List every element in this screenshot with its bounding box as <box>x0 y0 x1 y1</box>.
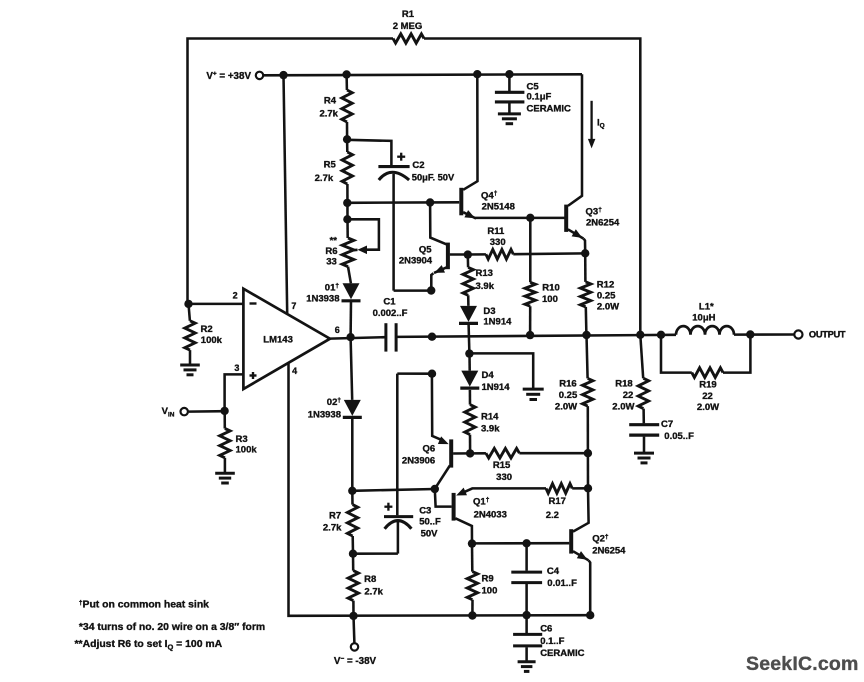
svg-text:Q6: Q6 <box>423 444 436 455</box>
svg-text:R14: R14 <box>481 412 499 423</box>
svg-text:*34 turns of no. 20 wire on a: *34 turns of no. 20 wire on a 3/8′′ form <box>79 622 265 633</box>
svg-text:100: 100 <box>542 294 558 305</box>
svg-text:0.01..F: 0.01..F <box>547 578 577 589</box>
svg-text:2.7k: 2.7k <box>319 108 338 119</box>
svg-text:0.002..F: 0.002..F <box>373 308 408 319</box>
svg-text:2: 2 <box>233 291 238 301</box>
svg-text:C6: C6 <box>540 624 552 635</box>
svg-text:2N6254: 2N6254 <box>586 218 620 229</box>
svg-text:Q5: Q5 <box>419 244 432 255</box>
svg-text:2N4033: 2N4033 <box>474 510 507 521</box>
svg-text:0.1μF: 0.1μF <box>527 92 552 103</box>
svg-text:R7: R7 <box>329 511 341 522</box>
svg-text:1N914: 1N914 <box>483 317 512 328</box>
svg-text:50μF. 50V: 50μF. 50V <box>412 173 455 183</box>
svg-text:R19: R19 <box>699 380 716 391</box>
svg-text:33: 33 <box>326 257 337 268</box>
svg-text:CERAMIC: CERAMIC <box>540 648 584 659</box>
svg-text:**: ** <box>330 236 338 247</box>
svg-text:D3: D3 <box>483 306 495 317</box>
svg-text:3.9k: 3.9k <box>481 424 500 435</box>
svg-text:0.25: 0.25 <box>559 390 578 401</box>
svg-text:C1: C1 <box>383 296 396 307</box>
svg-text:2.0W: 2.0W <box>597 302 619 313</box>
svg-text:OUTPUT: OUTPUT <box>809 329 846 339</box>
svg-text:R1: R1 <box>402 9 415 20</box>
svg-text:02†: 02† <box>327 397 342 408</box>
svg-text:LM143: LM143 <box>263 334 293 345</box>
svg-text:1N3938: 1N3938 <box>308 410 341 421</box>
svg-text:R12: R12 <box>597 280 614 291</box>
svg-text:50V: 50V <box>421 528 439 539</box>
svg-text:100: 100 <box>482 586 498 597</box>
svg-text:01†: 01† <box>325 282 340 293</box>
svg-text:VIN: VIN <box>162 406 175 418</box>
svg-text:C7: C7 <box>661 419 673 430</box>
svg-text:Q3†: Q3† <box>586 206 603 217</box>
svg-text:Q4†: Q4† <box>481 190 498 201</box>
svg-text:V+ = +38V: V+ = +38V <box>206 71 251 82</box>
svg-text:50..F: 50..F <box>419 517 441 528</box>
svg-text:7: 7 <box>291 301 296 311</box>
svg-text:R3: R3 <box>236 434 248 445</box>
svg-text:1N3938: 1N3938 <box>306 294 339 305</box>
svg-text:R2: R2 <box>201 324 213 335</box>
svg-text:R17: R17 <box>548 496 565 507</box>
svg-text:D4: D4 <box>482 370 495 381</box>
svg-text:R16: R16 <box>559 379 576 390</box>
svg-text:Q2†: Q2† <box>592 534 609 545</box>
svg-text:C3: C3 <box>419 505 431 516</box>
svg-text:330: 330 <box>496 472 512 483</box>
svg-text:R6: R6 <box>325 246 337 257</box>
svg-text:22: 22 <box>702 391 713 402</box>
svg-text:R18: R18 <box>615 379 632 390</box>
svg-text:L1*: L1* <box>699 302 714 313</box>
svg-text:2 MEG: 2 MEG <box>393 21 423 32</box>
svg-text:Q1†: Q1† <box>473 496 490 507</box>
svg-text:0.1..F: 0.1..F <box>540 636 564 647</box>
svg-text:R15: R15 <box>493 460 511 471</box>
svg-text:330: 330 <box>490 237 506 248</box>
svg-text:†Put on common heat sink: †Put on common heat sink <box>79 599 209 610</box>
svg-text:2.7k: 2.7k <box>315 173 334 184</box>
svg-text:2N3906: 2N3906 <box>402 455 435 466</box>
svg-text:**Adjust R6 to set IQ = 100 mA: **Adjust R6 to set IQ = 100 mA <box>75 639 223 651</box>
svg-text:IQ: IQ <box>597 117 605 129</box>
svg-text:2.7k: 2.7k <box>323 523 342 534</box>
svg-text:2N6254: 2N6254 <box>592 545 626 556</box>
svg-text:3.9k: 3.9k <box>476 281 495 292</box>
svg-text:2N3904: 2N3904 <box>399 256 433 267</box>
svg-text:SeekIC.com: SeekIC.com <box>746 653 859 675</box>
svg-text:C4: C4 <box>547 566 560 577</box>
svg-text:R8: R8 <box>364 574 376 585</box>
svg-text:2.0W: 2.0W <box>555 402 577 413</box>
svg-text:C2: C2 <box>412 160 424 171</box>
svg-text:R10: R10 <box>542 283 559 294</box>
svg-text:2.2: 2.2 <box>546 510 559 521</box>
svg-text:2.0W: 2.0W <box>697 402 719 413</box>
svg-text:1N914: 1N914 <box>482 382 511 393</box>
svg-text:0.25: 0.25 <box>597 291 616 302</box>
svg-text:R9: R9 <box>482 573 494 584</box>
svg-text:22: 22 <box>623 390 634 401</box>
svg-text:100k: 100k <box>236 445 258 456</box>
svg-text:6: 6 <box>335 325 340 335</box>
svg-text:R11: R11 <box>487 226 505 237</box>
svg-text:R13: R13 <box>476 268 493 279</box>
svg-text:10μH: 10μH <box>692 313 715 324</box>
svg-text:CERAMIC: CERAMIC <box>527 104 571 115</box>
svg-text:2.0W: 2.0W <box>612 402 634 413</box>
svg-text:R5: R5 <box>324 159 337 170</box>
svg-text:3: 3 <box>234 363 239 373</box>
svg-text:4: 4 <box>292 366 297 376</box>
svg-text:2.7k: 2.7k <box>364 587 383 598</box>
svg-text:2N5148: 2N5148 <box>482 202 515 213</box>
svg-text:0.05..F: 0.05..F <box>664 431 694 442</box>
svg-text:100k: 100k <box>201 335 223 346</box>
svg-text:V− = -38V: V− = -38V <box>334 656 377 667</box>
svg-text:R4: R4 <box>324 95 337 106</box>
